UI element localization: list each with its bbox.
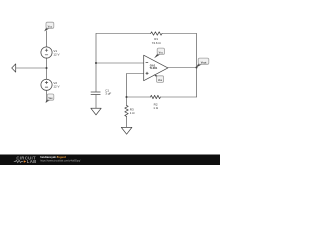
footer logo orange arrow	[24, 160, 26, 162]
capacitor C1	[91, 92, 100, 95]
resistor R2	[151, 95, 161, 98]
footer title (white part)	[40, 155, 57, 159]
label R2 value	[153, 103, 159, 111]
supply flag Vcc (op-amp V+ pin)	[154, 48, 164, 58]
junction node at inverting input	[95, 62, 97, 64]
wire op-amp output	[168, 67, 197, 69]
node flag Vcc (left, at top of source chain)	[44, 22, 54, 31]
svg-text:12 V: 12 V	[53, 85, 59, 89]
svg-text:74.6 Ω: 74.6 Ω	[152, 41, 162, 45]
svg-text:TL081: TL081	[150, 66, 158, 70]
junction node between V1 and V2	[45, 67, 47, 69]
svg-text:LAB: LAB	[27, 159, 37, 164]
footer bar	[0, 155, 220, 166]
ground (under R3)	[121, 127, 132, 134]
svg-text:Vee: Vee	[158, 79, 163, 82]
wire feedback top line left part	[96, 33, 151, 35]
voltage source V2	[41, 79, 52, 90]
voltage source V1	[41, 47, 52, 58]
ground (under C1)	[91, 108, 101, 115]
wire junction to port arrow	[16, 67, 47, 69]
wire inverting input	[96, 62, 144, 64]
label R3 value	[130, 107, 136, 115]
resistor R3	[125, 105, 128, 116]
wire non-inverting input (corner down to bottom node)	[127, 74, 144, 98]
node flag Vee (left, at bottom of source chain)	[45, 94, 54, 103]
svg-text:1 Ω: 1 Ω	[130, 111, 136, 115]
svg-text:3 µF: 3 µF	[105, 92, 111, 96]
footer url	[40, 159, 80, 162]
supply flag Vee (op-amp V- pin)	[154, 74, 164, 82]
label V1 value	[53, 49, 59, 57]
wire flag to V1 top	[46, 31, 48, 47]
wire top-left vertical (feedback line down to C1)	[95, 34, 97, 92]
label V2 value	[53, 81, 59, 89]
wire bottom line left part	[127, 96, 151, 98]
svg-text:Vcc: Vcc	[48, 25, 53, 28]
node flag Vout	[196, 58, 209, 68]
svg-text:Vout: Vout	[201, 60, 207, 64]
junction node at non-inverting network	[125, 96, 127, 98]
op-amp OA1 TL081	[144, 55, 168, 80]
wire feedback top line right part	[162, 33, 197, 35]
wire V2 bottom to Vee flag	[46, 90, 48, 102]
wire bottom line right part	[160, 96, 196, 98]
label R1 value	[152, 37, 162, 45]
label C1 value	[105, 88, 111, 95]
wire R3 to ground	[126, 116, 128, 127]
wire C1 to ground	[95, 95, 97, 109]
svg-text:https://www.circuitlab.com/c4v: https://www.circuitlab.com/c4vb85pq/	[40, 159, 80, 162]
footer CircuitLab logo	[14, 156, 37, 165]
junction node at output	[195, 66, 197, 68]
wire V1 bottom to V2 top	[46, 58, 48, 80]
svg-text:Vee: Vee	[48, 97, 53, 100]
svg-text:Vcc: Vcc	[159, 51, 164, 54]
wire node to R3	[126, 97, 128, 105]
resistor R1	[151, 32, 162, 35]
port arrow (left terminal)	[12, 64, 16, 72]
svg-text:1 Ω: 1 Ω	[153, 106, 159, 110]
wire right vertical (output to feedback top and bottom)	[196, 34, 198, 98]
svg-text:12 V: 12 V	[53, 52, 59, 56]
